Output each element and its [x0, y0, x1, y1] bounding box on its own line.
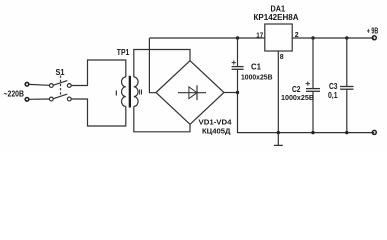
svg-text:17: 17 — [256, 32, 263, 39]
wire secondary bottom to bridge bottom corner — [134, 106, 190, 131]
svg-text:КЦ405Д: КЦ405Д — [202, 127, 231, 136]
bridge diode symbol — [178, 85, 206, 100]
capacitor C3 — [340, 38, 354, 133]
svg-text:8: 8 — [280, 54, 284, 61]
node: pin8 / bottom rail junction — [277, 131, 280, 134]
output terminal minus — [372, 130, 376, 134]
pin 8 wire down to ground rail — [277, 51, 279, 133]
svg-text:VD1-VD4: VD1-VD4 — [199, 118, 233, 127]
transformer primary winding I — [122, 77, 126, 106]
op-amp/regulator DA1 body — [265, 24, 292, 51]
svg-text:I: I — [115, 89, 117, 98]
bridge rectifier VD1-VD4 diamond — [156, 61, 224, 125]
wire bridge plus (left corner) up to top rail — [149, 38, 156, 93]
input terminal top — [25, 82, 29, 86]
capacitor C1 plus mark — [232, 60, 236, 64]
switch S1 pole 2 contact right — [67, 97, 71, 101]
switch S1 pole 1 contact right — [67, 84, 71, 88]
node: C3 / bottom rail junction — [345, 131, 348, 134]
input terminal bottom — [25, 98, 29, 102]
node: C2 / bottom rail junction — [311, 131, 314, 134]
svg-text:II: II — [139, 88, 143, 97]
svg-text:1000x25В: 1000x25В — [241, 74, 273, 81]
wire C1 branch down to bottom rail corner — [238, 93, 375, 133]
wire secondary top to bridge top corner — [134, 50, 190, 78]
svg-text:0,1: 0,1 — [328, 91, 338, 100]
wire input bottom to switch — [29, 98, 49, 100]
svg-text:1000x25В: 1000x25В — [281, 95, 314, 102]
svg-text:TP1: TP1 — [117, 48, 130, 57]
svg-text:C2: C2 — [292, 85, 301, 94]
node: top rail / C1 junction — [236, 36, 239, 39]
wire switch pole1 to primary top — [71, 60, 126, 86]
switch S1 gang dashed link — [60, 76, 62, 97]
switch S1 pole 2 contact left — [49, 97, 53, 101]
top rail right section from pin 2 — [292, 37, 374, 39]
node: top rail / C3 junction — [345, 36, 348, 39]
svg-text:C1: C1 — [251, 62, 262, 71]
capacitor C2 plus mark — [306, 81, 310, 85]
svg-text:C3: C3 — [329, 82, 338, 91]
capacitor C2 — [306, 38, 320, 133]
switch S1 pole 2 blade — [53, 94, 67, 99]
output terminal plus — [372, 36, 376, 40]
top rail left section to DA1 pin 17 — [149, 37, 264, 39]
switch S1 pole 1 blade — [53, 81, 67, 86]
svg-text:~220В: ~220В — [4, 89, 25, 99]
switch S1 pole 1 contact left — [49, 84, 53, 88]
capacitor C1 — [232, 38, 244, 93]
transformer secondary winding II — [134, 77, 138, 106]
ground symbol — [274, 133, 283, 146]
wire switch pole2 to primary bottom — [71, 99, 126, 126]
node: top rail / C2 junction — [311, 36, 314, 39]
transformer core — [129, 76, 131, 108]
svg-text:+ 9В: + 9В — [367, 26, 379, 35]
node: C1 / bridge minus junction — [236, 91, 239, 94]
wire input top to switch — [29, 83, 49, 86]
svg-text:КР142ЕН8А: КР142ЕН8А — [254, 13, 299, 22]
wire bridge right corner to C1 branch — [224, 92, 238, 94]
